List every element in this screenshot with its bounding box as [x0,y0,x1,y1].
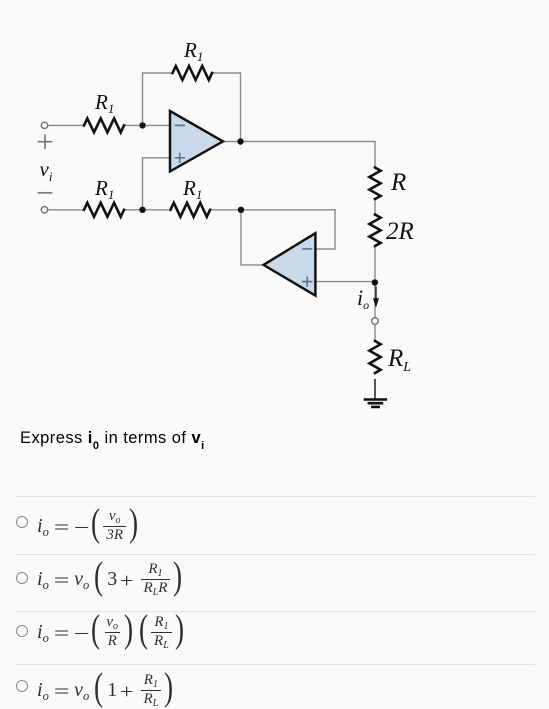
wire: resistor R to resistor 2R [374,199,376,215]
wire: op-amp U2 output vertex left then up to node C [241,210,264,265]
wire: resistor R1 FB to feedback top-right corner, down to output node [212,73,241,142]
svg-text:vi: vi [40,157,53,184]
resistor 2R (vertical) [369,215,380,247]
option dividers [15,496,535,497]
resistor R1 C (middle) [171,203,211,217]
wire: feedback top-left horizontal to resistor R1 FB [143,72,173,74]
resistor R (vertical) [369,168,380,200]
option 1 [16,516,28,528]
ground [365,400,386,407]
svg-text:R1: R1 [94,90,114,116]
node D [372,279,378,285]
wire: resistor 2R down to node D [374,246,376,283]
svg-text:R1: R1 [182,176,202,202]
node C [238,207,244,213]
wire: op-amp U2 plus input right to node D [316,281,375,283]
wire: resistor R1 C to node C [210,209,241,211]
op-amp U2 [264,233,316,295]
svg-text:io: io [357,285,369,312]
current arrow io [375,287,377,299]
wire: top input terminal to resistor R1 input A [48,124,85,126]
resistor RL (vertical load) [369,341,380,373]
option 4 [16,680,28,692]
svg-text:R1: R1 [183,38,203,64]
wire: op-amp U1 vertex to output node, right along top rail then down to resistor R [224,142,375,168]
svg-text:R: R [390,169,406,196]
output terminal circle [372,318,379,325]
wire: node A up to feedback top-left corner [142,73,144,125]
wire: output terminal circle down to resistor RL [374,325,376,342]
wire: resistor R1 B through node B to resistor R1 C [124,209,171,211]
resistor R1 B (bottom input) [84,203,124,217]
resistor R1 FB (feedback) [173,66,213,80]
wire: node C right then down to op-amp U2 minus input [241,210,335,249]
svg-text:RL: RL [387,345,411,375]
option 2 [16,572,28,584]
question text [20,429,205,450]
input terminal bottom [41,207,47,213]
option 3 [16,625,28,637]
circuit schematic [0,0,549,425]
wire: bottom input terminal to resistor R1 B [48,209,85,211]
node B [139,207,145,213]
svg-text:R1: R1 [94,176,114,202]
resistor R1 A (top input) [84,118,124,132]
wire: node D down to output terminal circle [374,283,376,318]
plus sign input [39,135,52,148]
node A [139,122,145,128]
input terminal top [41,122,47,128]
svg-text:2R: 2R [386,218,414,245]
wire: op-amp U1 plus input left then down to node B [143,158,171,210]
op-amp U1 [170,111,223,171]
wire: resistor RL down to ground [374,380,376,399]
node U1 output [237,138,243,144]
minus sign input [39,192,52,194]
wire: resistor R1 A to op-amp U1 minus input, through node A [124,124,170,126]
